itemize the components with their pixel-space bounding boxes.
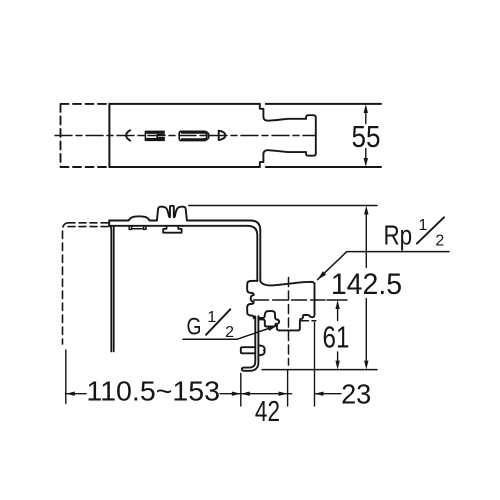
bottom dimension line & arrows <box>66 392 341 396</box>
right corner outer <box>250 221 260 282</box>
svg-text:Rp: Rp <box>384 220 413 251</box>
bar top line with dome <box>109 216 157 220</box>
svg-text:142.5: 142.5 <box>331 268 402 301</box>
faucet body top edge + right face + lower right <box>260 281 314 330</box>
slot A <box>145 131 164 140</box>
left solid vertical <box>108 104 110 167</box>
slot B <box>179 131 209 140</box>
end cap <box>306 115 316 156</box>
top extension line <box>189 205 377 207</box>
dashed left corner <box>63 223 69 231</box>
faucet body left wavy profile <box>247 281 257 318</box>
leg below body + hook foot <box>242 316 259 371</box>
vertical center dashed <box>288 278 290 366</box>
bar second line <box>109 225 247 227</box>
hook flange <box>241 347 256 353</box>
61 dimension <box>327 300 347 370</box>
142.5 dimension <box>364 206 368 370</box>
svg-text:110.5~153: 110.5~153 <box>86 375 220 407</box>
butterfly wing nut <box>157 206 187 221</box>
svg-text:61: 61 <box>323 320 350 355</box>
svg-text:42: 42 <box>255 394 280 427</box>
right corner inner <box>248 226 258 281</box>
dashed left vertical <box>62 231 64 344</box>
left hanging leg <box>110 226 114 352</box>
small arc detail <box>126 130 130 140</box>
svg-text:23: 23 <box>341 378 371 409</box>
flange right bump <box>258 345 264 355</box>
dashed extension rectangle <box>61 104 110 167</box>
bar left end connector <box>108 221 110 226</box>
neck step top <box>260 104 306 121</box>
neck step bottom <box>260 150 306 167</box>
55 dimension <box>364 104 368 167</box>
svg-text:2: 2 <box>435 232 444 249</box>
horizontal axis dashed <box>254 299 325 301</box>
G half socket <box>259 311 280 326</box>
svg-text:1: 1 <box>207 309 216 326</box>
svg-text:55: 55 <box>352 120 381 155</box>
lower axis short dashes <box>302 320 316 322</box>
tabs below bar <box>129 226 146 229</box>
D detail <box>219 131 226 140</box>
centerline <box>55 135 316 137</box>
top edge solid <box>109 103 381 105</box>
svg-text:1: 1 <box>419 217 428 234</box>
dashed bar left <box>68 223 109 227</box>
T stem below butterfly <box>163 226 181 233</box>
svg-text:G: G <box>187 313 202 341</box>
Rp 1/2 label <box>318 217 449 280</box>
G 1/2 label <box>183 309 277 341</box>
bottom edge solid <box>109 166 381 168</box>
bottom reference line <box>262 369 377 371</box>
bottom extension lines <box>66 323 315 407</box>
